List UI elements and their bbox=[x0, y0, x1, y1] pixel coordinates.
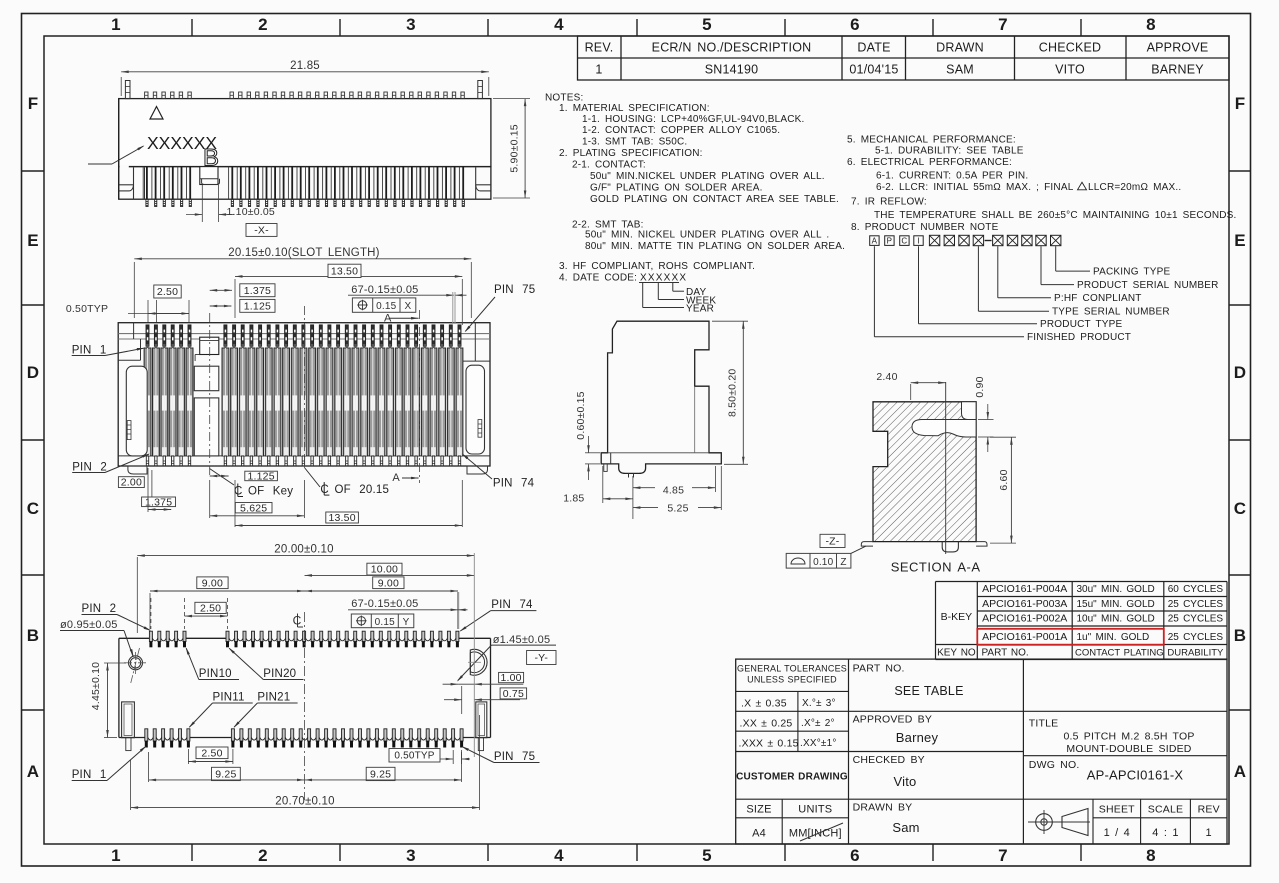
svg-text:.XX ± 0.25: .XX ± 0.25 bbox=[740, 718, 793, 730]
svg-text:SEE TABLE: SEE TABLE bbox=[894, 684, 963, 698]
dimension 2.50 bottom row boxed bbox=[196, 747, 228, 759]
dimension 0.90 section bbox=[978, 419, 994, 421]
svg-text:5: 5 bbox=[702, 846, 712, 865]
dimension 20.00±0.10 bbox=[136, 557, 138, 633]
svg-text:67-0.15±0.05: 67-0.15±0.05 bbox=[351, 598, 418, 610]
svg-text:6-1. CURRENT: 0.5A PER PIN: 6-1. CURRENT: 0.5A PER PIN. bbox=[876, 170, 1028, 181]
svg-text:7: 7 bbox=[998, 846, 1008, 865]
svg-text:9.00: 9.00 bbox=[202, 577, 223, 589]
top view lower band bbox=[119, 167, 491, 200]
title block vertical dividers bbox=[848, 659, 850, 844]
svg-text:REV.: REV. bbox=[585, 41, 614, 55]
dimension 1.375 bottom boxed bbox=[142, 497, 176, 507]
top view band left end walls bbox=[133, 167, 135, 199]
dimension 9.00 left boxed bbox=[197, 577, 228, 589]
svg-text:UNITS: UNITS bbox=[798, 804, 832, 816]
svg-text:THE TEMPERATURE SHALL BE 2: THE TEMPERATURE SHALL BE 260±5°C MAINTAI… bbox=[874, 210, 1237, 221]
svg-text:BARNEY: BARNEY bbox=[1151, 63, 1204, 77]
svg-text:A: A bbox=[27, 762, 39, 781]
side view left foot tail bbox=[604, 464, 607, 472]
svg-text:8: 8 bbox=[1146, 846, 1156, 865]
svg-text:APCIO161-P001A: APCIO161-P001A bbox=[982, 631, 1067, 643]
front view top shell lines bbox=[118, 333, 490, 335]
svg-text:1.00: 1.00 bbox=[500, 672, 521, 684]
section A-A right foot bbox=[976, 542, 987, 547]
svg-text:DURABILITY: DURABILITY bbox=[1167, 648, 1224, 659]
svg-text:50u" MIN. NICKEL UNDER PLA: 50u" MIN. NICKEL UNDER PLATING OVER ALL … bbox=[585, 230, 829, 241]
datum -Z- box bbox=[820, 534, 845, 547]
front view right foot bbox=[467, 466, 488, 474]
svg-text:PIN20: PIN20 bbox=[263, 668, 296, 680]
svg-text:SHEET: SHEET bbox=[1099, 804, 1135, 816]
svg-text:F: F bbox=[1235, 94, 1246, 113]
top view right solder tab bbox=[476, 184, 491, 186]
svg-text:D: D bbox=[27, 363, 39, 382]
front view contact strip field bbox=[144, 348, 151, 456]
svg-text:1-1. HOUSING: LCP+40%GF,UL-9: 1-1. HOUSING: LCP+40%GF,UL-94V0,BLACK. bbox=[582, 114, 805, 125]
svg-text:P: P bbox=[887, 236, 893, 245]
svg-text:PIN 75: PIN 75 bbox=[494, 751, 535, 763]
svg-text:GENERAL TOLERANCES: GENERAL TOLERANCES bbox=[737, 664, 847, 674]
svg-text:.X°± 2°: .X°± 2° bbox=[801, 718, 835, 729]
svg-text:.X ± 0.35: .X ± 0.35 bbox=[741, 698, 787, 710]
datum -Y- box bbox=[527, 651, 556, 665]
dimension 2.50 boxed front bbox=[154, 285, 181, 298]
svg-text:2.40: 2.40 bbox=[876, 371, 897, 383]
svg-text:1: 1 bbox=[111, 846, 121, 865]
svg-text:2: 2 bbox=[258, 15, 268, 34]
svg-text:PIN 2: PIN 2 bbox=[82, 603, 117, 615]
bottom view body outline bbox=[118, 638, 120, 737]
svg-text:21.85: 21.85 bbox=[290, 60, 320, 72]
svg-text:1.375: 1.375 bbox=[244, 285, 271, 297]
side view outline bbox=[601, 321, 721, 473]
svg-text:Sam: Sam bbox=[892, 820, 919, 835]
svg-text:20.00±0.10: 20.00±0.10 bbox=[274, 544, 333, 556]
bottom view top pad row bbox=[149, 631, 152, 641]
bottom view mounting hole bbox=[129, 656, 143, 670]
zone ticks bottom bbox=[191, 844, 193, 861]
position tolerance frame bottom view bbox=[351, 614, 414, 628]
front view section line A-A bbox=[419, 310, 421, 483]
svg-text:UNLESS SPECIFIED: UNLESS SPECIFIED bbox=[747, 675, 837, 685]
svg-text:A4: A4 bbox=[752, 828, 766, 840]
dimension 2.50 top row boxed bbox=[195, 602, 226, 613]
svg-text:PIN 74: PIN 74 bbox=[491, 599, 533, 611]
svg-text:3: 3 bbox=[406, 15, 416, 34]
svg-text:CHECKED BY: CHECKED BY bbox=[853, 754, 925, 766]
svg-text:80u" MIN. MATTE TIN PLATIN: 80u" MIN. MATTE TIN PLATING ON SOLDER AR… bbox=[585, 241, 845, 252]
top view upper pin row bbox=[145, 92, 148, 99]
svg-text:30u" MIN. GOLD: 30u" MIN. GOLD bbox=[1077, 584, 1155, 595]
svg-text:2. PLATING SPECIFICATION:: 2. PLATING SPECIFICATION: bbox=[559, 148, 703, 159]
sheet scale rev cells bbox=[1092, 799, 1094, 844]
svg-text:1.375: 1.375 bbox=[145, 496, 172, 508]
dimension 1.00 boxed bbox=[499, 672, 524, 682]
svg-text:5.625: 5.625 bbox=[240, 502, 267, 514]
svg-text:7. IR REFLOW:: 7. IR REFLOW: bbox=[851, 196, 927, 207]
svg-text:9.25: 9.25 bbox=[370, 769, 391, 781]
top view index triangle bbox=[150, 107, 163, 120]
svg-text:10u" MIN. GOLD: 10u" MIN. GOLD bbox=[1077, 613, 1155, 624]
svg-text:Y: Y bbox=[403, 617, 410, 628]
svg-text:AP-APCI0161-X: AP-APCI0161-X bbox=[1087, 768, 1184, 783]
svg-text:KEY NO: KEY NO bbox=[937, 648, 976, 659]
svg-text:1-3. SMT TAB: S50C.: 1-3. SMT TAB: S50C. bbox=[582, 137, 687, 148]
dimension 20.15±0.10 slot length bbox=[133, 262, 135, 318]
svg-text:SIZE: SIZE bbox=[746, 804, 771, 816]
title block horizontal lines across bbox=[736, 710, 1227, 712]
datum Y extension line bbox=[473, 553, 475, 757]
top view corner posts bbox=[125, 81, 130, 99]
dimension 4.45±0.10 bbox=[104, 662, 126, 664]
svg-text:15u" MIN. GOLD: 15u" MIN. GOLD bbox=[1077, 599, 1155, 610]
svg-text:PACKING TYPE: PACKING TYPE bbox=[1093, 267, 1171, 278]
svg-text:67-0.15±0.05: 67-0.15±0.05 bbox=[351, 284, 418, 296]
svg-text:0.5 PITCH M.2 8.5H TOP: 0.5 PITCH M.2 8.5H TOP bbox=[1063, 731, 1194, 743]
svg-text:5: 5 bbox=[702, 15, 712, 34]
bottom view bottom row scallops bbox=[148, 738, 153, 741]
front view key centerline bbox=[209, 313, 211, 478]
svg-text:PART NO.: PART NO. bbox=[982, 648, 1029, 659]
front view left shoulder bbox=[133, 323, 135, 339]
svg-text:20.70±0.10: 20.70±0.10 bbox=[275, 796, 334, 808]
svg-text:CHECKED: CHECKED bbox=[1039, 41, 1102, 55]
svg-text:1. MATERIAL SPECIFICATION:: 1. MATERIAL SPECIFICATION: bbox=[559, 103, 710, 114]
front view body outline bbox=[118, 323, 490, 466]
svg-text:B: B bbox=[27, 626, 39, 645]
top view body outline bbox=[119, 99, 491, 167]
svg-text:13.50: 13.50 bbox=[331, 265, 358, 277]
svg-text:1: 1 bbox=[111, 15, 121, 34]
svg-text:1: 1 bbox=[1206, 827, 1212, 839]
dimension 8.50±0.20 bbox=[712, 320, 748, 322]
svg-text:B: B bbox=[1234, 626, 1246, 645]
svg-text:LLCR=20mΩ MAX..: LLCR=20mΩ MAX.. bbox=[1088, 182, 1181, 193]
svg-text:PART NO.: PART NO. bbox=[853, 663, 905, 675]
svg-text:01/04'15: 01/04'15 bbox=[849, 63, 898, 77]
svg-text:APCIO161-P003A: APCIO161-P003A bbox=[982, 598, 1067, 610]
svg-text:PIN11: PIN11 bbox=[213, 692, 245, 704]
svg-text:ø0.95±0.05: ø0.95±0.05 bbox=[60, 619, 118, 631]
svg-text:6-2. LLCR: INITIAL 55mΩ MA: 6-2. LLCR: INITIAL 55mΩ MAX. ; FINAL bbox=[876, 182, 1074, 193]
svg-text:MM[INCH]: MM[INCH] bbox=[789, 828, 842, 840]
svg-text:2.50: 2.50 bbox=[200, 603, 221, 615]
svg-text:3: 3 bbox=[406, 846, 416, 865]
svg-text:VITO: VITO bbox=[1055, 63, 1085, 77]
svg-text:SCALE: SCALE bbox=[1148, 804, 1183, 816]
svg-text:6.60: 6.60 bbox=[998, 469, 1010, 490]
front view key tower bbox=[200, 337, 219, 354]
bottom view bottom pad row bbox=[145, 729, 148, 741]
svg-text:0.60±0.15: 0.60±0.15 bbox=[575, 391, 587, 439]
dimension 13.50 bottom boxed bbox=[326, 512, 359, 523]
svg-text:2.00: 2.00 bbox=[121, 477, 142, 489]
bottom view half hole D shape bbox=[470, 649, 487, 675]
bottom view centerline bbox=[304, 612, 306, 800]
section A-A latch slot bbox=[962, 402, 977, 420]
svg-text:9.00: 9.00 bbox=[378, 577, 399, 589]
svg-text:5.25: 5.25 bbox=[667, 503, 688, 515]
svg-text:.XX°±1°: .XX°±1° bbox=[800, 738, 837, 749]
section A-A body hatched bbox=[873, 402, 976, 542]
svg-text:A: A bbox=[392, 472, 400, 484]
svg-text:6. ELECTRICAL PERFORMANCE:: 6. ELECTRICAL PERFORMANCE: bbox=[847, 157, 1012, 168]
svg-text:TITLE: TITLE bbox=[1029, 718, 1059, 730]
zone ticks left bbox=[22, 170, 45, 172]
svg-text:0.50TYP: 0.50TYP bbox=[394, 751, 434, 762]
svg-text:PIN 75: PIN 75 bbox=[494, 284, 535, 296]
flatness frame leader bbox=[851, 546, 866, 553]
svg-text:C: C bbox=[27, 499, 39, 518]
top view key block bbox=[200, 167, 218, 185]
front view left foot bbox=[128, 466, 147, 474]
dimension 9.25 right boxed bbox=[366, 767, 395, 780]
tolerance cell divider bbox=[797, 691, 799, 751]
dimension 13.50 top boxed bbox=[234, 279, 236, 318]
svg-text:SAM: SAM bbox=[946, 63, 974, 77]
svg-text:E: E bbox=[1234, 231, 1246, 250]
svg-text:OF Key: OF Key bbox=[248, 485, 293, 497]
position tolerance frame front bbox=[352, 298, 415, 312]
svg-text:A: A bbox=[872, 236, 878, 245]
section A-A contact channel bbox=[912, 420, 976, 438]
dimension 6.60 section bbox=[990, 436, 1016, 438]
dimension 21.85 bbox=[120, 77, 122, 96]
svg-text:1.125: 1.125 bbox=[247, 471, 274, 483]
triangle glyph in note 6-2 bbox=[1078, 182, 1087, 190]
svg-text:4 : 1: 4 : 1 bbox=[1152, 827, 1178, 839]
svg-text:5.90±0.15: 5.90±0.15 bbox=[509, 124, 521, 172]
svg-text:1.85: 1.85 bbox=[563, 493, 584, 505]
dimension 9.25 left boxed bbox=[212, 767, 241, 780]
svg-text:APCIO161-P002A: APCIO161-P002A bbox=[982, 612, 1067, 624]
pad 74 gray extension line bbox=[457, 592, 459, 629]
svg-text:6: 6 bbox=[850, 15, 860, 34]
dimension 0.50TYP boxed bottom bbox=[389, 749, 440, 763]
svg-text:0.15: 0.15 bbox=[376, 301, 397, 312]
svg-text:4.45±0.10: 4.45±0.10 bbox=[90, 662, 102, 710]
side view inner lines bbox=[608, 452, 709, 454]
svg-text:CUSTOMER DRAWING: CUSTOMER DRAWING bbox=[736, 772, 848, 783]
svg-text:GOLD PLATING ON CONTACT AR: GOLD PLATING ON CONTACT AREA SEE TABLE. bbox=[590, 194, 839, 205]
front view left slot latch detail bbox=[127, 421, 131, 440]
top view lower band pin strips bbox=[146, 167, 148, 200]
title block horizontal lines left bbox=[736, 690, 849, 692]
svg-text:DWG NO.: DWG NO. bbox=[1029, 759, 1080, 771]
svg-text:Vito: Vito bbox=[894, 774, 917, 789]
svg-text:20.15±0.10(SLOT LENGTH): 20.15±0.10(SLOT LENGTH) bbox=[228, 247, 379, 259]
dimension 1.10±0.05 bbox=[201, 185, 203, 222]
top view left solder tab bbox=[119, 184, 134, 186]
section A-A bottom tab bbox=[942, 542, 958, 552]
svg-text:-X-: -X- bbox=[254, 225, 269, 237]
svg-text:APPROVE: APPROVE bbox=[1147, 41, 1209, 55]
svg-text:1u" MIN. GOLD: 1u" MIN. GOLD bbox=[1077, 632, 1150, 643]
svg-text:P:HF CONPLIANT: P:HF CONPLIANT bbox=[1054, 293, 1142, 304]
front view connector centerline bbox=[304, 306, 306, 470]
svg-text:SN14190: SN14190 bbox=[705, 63, 759, 77]
svg-text:PIN10: PIN10 bbox=[199, 668, 232, 680]
svg-text:4: 4 bbox=[554, 15, 564, 34]
svg-text:-Y-: -Y- bbox=[534, 652, 548, 664]
front view bottom seating line bbox=[118, 455, 490, 457]
svg-text:F: F bbox=[28, 94, 39, 113]
front view right end slot bbox=[466, 365, 485, 454]
svg-text:0.90: 0.90 bbox=[974, 376, 986, 397]
svg-text:4. DATE CODE:: 4. DATE CODE: bbox=[559, 273, 637, 284]
svg-text:YEAR: YEAR bbox=[686, 304, 714, 315]
svg-text:3. HF COMPLIANT, ROHS COMP: 3. HF COMPLIANT, ROHS COMPLIANT. bbox=[559, 261, 755, 272]
svg-text:8. PRODUCT NUMBER NOTE: 8. PRODUCT NUMBER NOTE bbox=[851, 222, 999, 233]
bottom view right solder tab bbox=[476, 702, 487, 738]
svg-text:1 / 4: 1 / 4 bbox=[1104, 827, 1130, 839]
svg-text:2.50: 2.50 bbox=[157, 286, 178, 298]
section A-A pin centerline bbox=[945, 382, 947, 554]
bottom view left solder tab bbox=[122, 702, 135, 738]
svg-text:8: 8 bbox=[1146, 15, 1156, 34]
front view right shoulder bbox=[474, 323, 476, 361]
b-key table grid bbox=[936, 581, 1228, 583]
svg-text:8.50±0.20: 8.50±0.20 bbox=[727, 369, 739, 417]
svg-text:B-KEY: B-KEY bbox=[941, 611, 973, 623]
svg-text:2: 2 bbox=[258, 846, 268, 865]
svg-text:25 CYCLES: 25 CYCLES bbox=[1168, 632, 1224, 643]
title block dwg row line bbox=[1023, 755, 1227, 757]
svg-text:1-2. CONTACT: COPPER ALLOY: 1-2. CONTACT: COPPER ALLOY C1065. bbox=[582, 125, 780, 136]
flatness tolerance frame bbox=[786, 553, 851, 568]
svg-text:PIN21: PIN21 bbox=[257, 692, 290, 704]
svg-text:OF 20.15: OF 20.15 bbox=[335, 484, 390, 496]
svg-text:5. MECHANICAL PERFORMANCE:: 5. MECHANICAL PERFORMANCE: bbox=[847, 134, 1016, 145]
svg-text:CONTACT PLATING: CONTACT PLATING bbox=[1075, 648, 1164, 659]
dimension 0.60±0.15 bbox=[585, 452, 600, 454]
svg-text:PRODUCT SERIAL NUMBER: PRODUCT SERIAL NUMBER bbox=[1077, 280, 1219, 291]
svg-text:APCIO161-P004A: APCIO161-P004A bbox=[982, 583, 1067, 595]
svg-text:ECR/N NO./DESCRIPTION: ECR/N NO./DESCRIPTION bbox=[652, 41, 812, 55]
svg-text:25 CYCLES: 25 CYCLES bbox=[1168, 613, 1224, 624]
svg-text:PIN 1: PIN 1 bbox=[72, 769, 107, 781]
svg-text:SECTION A-A: SECTION A-A bbox=[891, 560, 981, 575]
top view band right end wall bbox=[475, 167, 477, 199]
dimension 5.90±0.15 bbox=[493, 98, 530, 100]
svg-text:DRAWN: DRAWN bbox=[936, 41, 984, 55]
front view upper contact row bbox=[146, 325, 149, 346]
svg-text:PIN 1: PIN 1 bbox=[72, 345, 107, 357]
title block outline bbox=[736, 659, 1227, 844]
red highlight box on selected part bbox=[977, 629, 1164, 645]
svg-text:1.10±0.05: 1.10±0.05 bbox=[227, 206, 275, 218]
svg-text:0.15: 0.15 bbox=[375, 617, 396, 628]
dimension 20.70±0.10 bbox=[130, 760, 132, 810]
svg-text:ø1.45±0.05: ø1.45±0.05 bbox=[493, 634, 551, 646]
svg-text:-Z-: -Z- bbox=[825, 536, 839, 548]
svg-text:2.50: 2.50 bbox=[201, 747, 222, 759]
svg-text:FINISHED PRODUCT: FINISHED PRODUCT bbox=[1027, 332, 1131, 343]
front view left end slot bbox=[126, 366, 147, 456]
dimension 10.00 boxed bbox=[367, 563, 402, 575]
svg-text:PIN 74: PIN 74 bbox=[493, 478, 535, 490]
svg-text:Z: Z bbox=[840, 557, 846, 568]
front view key slot windows bbox=[194, 366, 219, 391]
svg-text:D: D bbox=[1234, 363, 1246, 382]
svg-text:2-1. CONTACT:: 2-1. CONTACT: bbox=[572, 160, 646, 171]
svg-text:REV: REV bbox=[1198, 804, 1220, 816]
svg-text:1.125: 1.125 bbox=[244, 300, 271, 312]
svg-text:6: 6 bbox=[850, 846, 860, 865]
svg-text:APPROVED BY: APPROVED BY bbox=[853, 714, 932, 726]
svg-text:5-1. DURABILITY: SEE TABLE: 5-1. DURABILITY: SEE TABLE bbox=[875, 145, 1024, 156]
front view right slot latch detail bbox=[478, 420, 482, 438]
svg-text:DATE: DATE bbox=[857, 41, 890, 55]
dimension 1.125 top boxed bbox=[240, 299, 275, 312]
product number note boxes APCI-XXXXXXXXX bbox=[870, 236, 879, 246]
dimension 5.625 boxed bbox=[235, 503, 272, 513]
svg-text:XXXXXX: XXXXXX bbox=[640, 273, 687, 284]
product number leader lines and labels bbox=[873, 246, 875, 337]
dimension 1.125 bottom boxed bbox=[245, 471, 278, 481]
svg-text:G/F" PLATING ON SOLDER ARE: G/F" PLATING ON SOLDER AREA. bbox=[590, 183, 763, 194]
zone ticks right bbox=[1229, 170, 1251, 172]
projection symbol bbox=[1028, 821, 1090, 823]
dimension 1.375 top boxed bbox=[240, 284, 275, 297]
svg-text:X.°± 3°: X.°± 3° bbox=[802, 698, 836, 709]
svg-text:25 CYCLES: 25 CYCLES bbox=[1168, 599, 1224, 610]
svg-text:9.25: 9.25 bbox=[215, 769, 236, 781]
datum -X- box bbox=[246, 224, 277, 237]
svg-text:10.00: 10.00 bbox=[371, 564, 398, 576]
dimension 2.40 section bbox=[910, 384, 912, 400]
bottom view top row scallops bbox=[152, 638, 157, 641]
svg-text:0.10: 0.10 bbox=[813, 557, 834, 568]
svg-text:50u" MIN.NICKEL UNDER PLATI: 50u" MIN.NICKEL UNDER PLATING OVER ALL. bbox=[590, 171, 825, 182]
revision table grid bbox=[578, 36, 1230, 80]
date code leader lines DAY WEEK YEAR bbox=[642, 283, 644, 308]
svg-text:NOTES:: NOTES: bbox=[545, 93, 583, 104]
svg-text:1: 1 bbox=[595, 63, 602, 77]
svg-text:PRODUCT TYPE: PRODUCT TYPE bbox=[1040, 319, 1123, 330]
svg-text:.XXX ± 0.15: .XXX ± 0.15 bbox=[739, 738, 799, 750]
side view center pin tail bbox=[628, 473, 630, 477]
svg-text:0.75: 0.75 bbox=[503, 688, 524, 700]
svg-text:4: 4 bbox=[554, 846, 564, 865]
dimension 9.00 right boxed bbox=[373, 577, 404, 589]
top view leader arrow to marking bbox=[88, 163, 112, 165]
svg-text:E: E bbox=[27, 231, 39, 250]
svg-text:0.50TYP: 0.50TYP bbox=[66, 303, 108, 315]
svg-text:C: C bbox=[901, 236, 907, 245]
svg-text:MOUNT-DOUBLE SIDED: MOUNT-DOUBLE SIDED bbox=[1066, 743, 1191, 755]
section A-A left foot bbox=[861, 542, 873, 547]
svg-text:13.50: 13.50 bbox=[328, 512, 355, 524]
svg-text:A: A bbox=[1234, 762, 1246, 781]
dimension 0.75 boxed bbox=[500, 688, 526, 699]
svg-text:Barney: Barney bbox=[896, 730, 939, 745]
svg-text:X: X bbox=[404, 301, 411, 312]
svg-text:60 CYCLES: 60 CYCLES bbox=[1168, 584, 1224, 595]
svg-text:7: 7 bbox=[998, 15, 1008, 34]
svg-text:4.85: 4.85 bbox=[663, 485, 684, 497]
svg-text:C: C bbox=[1234, 499, 1246, 518]
dimension 2.00 boxed bbox=[118, 477, 144, 488]
svg-text:I: I bbox=[917, 236, 919, 245]
svg-text:TYPE SERIAL NUMBER: TYPE SERIAL NUMBER bbox=[1052, 307, 1170, 318]
svg-text:DRAWN BY: DRAWN BY bbox=[853, 802, 913, 814]
svg-text:PIN 2: PIN 2 bbox=[72, 462, 107, 474]
zone ticks top bbox=[191, 19, 193, 36]
dash between product number box groups bbox=[985, 240, 992, 242]
